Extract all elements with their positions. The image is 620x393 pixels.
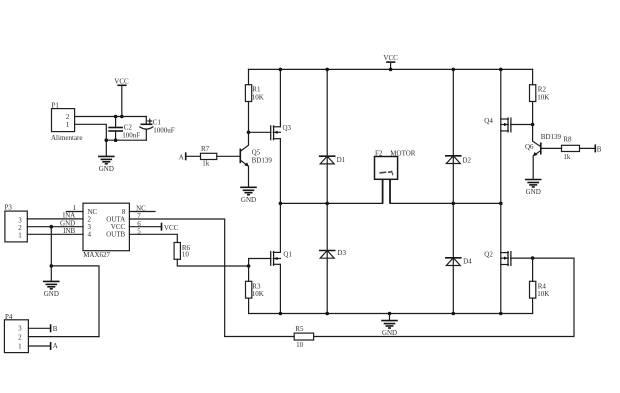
resistor R1 [245,69,263,132]
node D4 bottom [452,312,456,316]
motor F2 [375,149,416,203]
resistor R2 [530,69,550,124]
wire P1 pin2 to C1 top [75,116,147,118]
wire Q3 source to mid rail [279,139,281,204]
IC U1 MAX627 [83,203,129,259]
node Q3 drain at rail [279,68,283,72]
svg-text:A: A [179,153,184,161]
svg-text:10K: 10K [252,94,264,102]
wire P4.2 to riser [28,336,99,338]
svg-text:R1: R1 [252,86,261,94]
wire mid rail right [390,202,501,204]
svg-text:P1: P1 [52,102,60,110]
svg-text:OUTB: OUTB [106,231,125,239]
svg-text:10K: 10K [537,290,549,298]
diode D2 [445,69,471,203]
node Q4 at rail [499,68,503,72]
wire to Q3 gate [249,131,271,133]
svg-text:R4: R4 [538,282,547,290]
svg-text:VCC: VCC [164,224,179,232]
node gnd corner [105,138,109,142]
node D2 top [452,68,456,72]
port A [179,152,201,161]
svg-text:VCC: VCC [383,54,398,62]
svg-text:10K: 10K [252,290,264,298]
diode D1 [319,69,346,203]
port VCC (pin 6) [162,223,179,232]
svg-text:BD139: BD139 [252,157,273,165]
svg-text:Q6: Q6 [525,143,534,151]
svg-text:R5: R5 [295,325,304,333]
svg-text:C1: C1 [153,118,162,126]
ground (Q6 emitter) [525,180,542,197]
port A (P4) [51,342,58,350]
svg-text:Q3: Q3 [283,124,292,132]
wire Q3 drain to rail [279,69,281,126]
svg-text:D3: D3 [337,249,346,257]
transistor Q2 (NMOS mirrored) [484,250,511,266]
wire P3.2 to GND pin [27,226,83,228]
node D1 top [325,68,329,72]
wire Q4 gate to node [511,124,533,126]
wire Q1 source [279,264,281,313]
transistor Q4 (NMOS mirrored) [484,117,511,132]
node C2 bottom [114,138,118,142]
capacitor C2 [108,117,140,141]
connector P3 [5,204,28,242]
power flag VCC (top rail) [383,54,398,69]
svg-text:R3: R3 [252,282,261,290]
wire Q2 gate feed (right loop to R5) [314,258,574,336]
svg-text:MOTOR: MOTOR [390,149,415,157]
pin 1 stub (NC) [67,204,84,212]
svg-text:BD139: BD139 [541,133,562,141]
ground (P1) [98,140,115,173]
wire mid rail left [280,202,382,204]
svg-text:Q4: Q4 [484,117,493,125]
svg-text:OUTA: OUTA [106,215,125,223]
svg-text:1: 1 [18,232,22,240]
svg-text:2: 2 [88,215,92,223]
svg-text:Q1: Q1 [283,251,292,259]
svg-text:F2: F2 [375,149,383,157]
node C2 top [114,115,118,119]
svg-text:1k: 1k [563,153,571,161]
wire OUTA to R5 riser [129,219,224,337]
svg-text:GND: GND [526,188,541,196]
ground (P3 / logic) [43,266,60,298]
node D2/D4 [452,202,456,206]
transistor Q1 (NMOS) [271,251,293,266]
wire bottom rail [249,313,533,315]
wire Q2 lead (mid rail to bottom rail) [500,203,502,313]
node D1/D3 [325,202,329,206]
connector P1 [51,102,83,143]
node R2/Q4 gate/Q6 collector [531,123,535,127]
wire pin6 to VCC port [129,226,161,228]
node D3 bottom [325,312,329,316]
svg-text:Q2: Q2 [484,250,493,258]
resistor R7 [201,145,241,167]
svg-text:P4: P4 [5,313,13,321]
svg-text:10: 10 [182,250,190,258]
resistor R6 [174,243,249,267]
node Q3 source / Q1 drain [279,202,283,206]
ground (Q5 emitter) [240,187,257,204]
svg-text:2: 2 [18,333,22,341]
svg-text:3: 3 [18,324,22,332]
wire P3.1 to INB [27,233,83,235]
transistor Q3 (NMOS) [271,124,292,141]
ground (bottom rail) [381,314,398,338]
svg-text:MAX627: MAX627 [83,251,110,259]
diode D4 [445,203,472,313]
svg-text:NC: NC [136,204,146,212]
connector P4 [4,313,28,353]
wire branch to P4.2 riser [51,266,99,337]
svg-text:GND: GND [99,165,114,173]
node Q4/Q2 [499,202,503,206]
transistor Q6 BD139 [525,125,562,180]
svg-text:R7: R7 [201,145,210,153]
pin 8 stub (NC) [129,204,155,212]
wire P4.3 to port B [28,327,50,329]
svg-text:4: 4 [88,231,92,239]
svg-text:1000uF: 1000uF [153,126,175,134]
wire P3.3 to INA [27,218,83,220]
svg-text:1: 1 [18,343,22,351]
svg-text:GND: GND [241,196,256,204]
svg-text:2: 2 [66,113,70,121]
svg-text:B: B [597,145,602,153]
svg-text:7: 7 [137,212,141,220]
svg-text:D2: D2 [462,156,471,164]
diode D3 [319,203,347,313]
transistor Q5 BD139 [240,132,272,187]
port B (P4) [51,324,58,333]
node R1/Q5 collector/Q3 gate [247,131,251,135]
wire P1 pin1 to ground run [75,124,147,140]
svg-text:B: B [53,325,58,333]
wire VCC top rail [249,68,533,70]
node Q2 source at rail [499,312,503,316]
svg-text:Q5: Q5 [252,148,261,156]
svg-text:Alimentare: Alimentare [51,134,83,142]
svg-text:1: 1 [66,121,70,129]
svg-text:10K: 10K [537,94,549,102]
node P1 wire / VCC stub [120,115,124,119]
wire P4.1 to port A [28,345,50,347]
capacitor C1 [140,117,175,141]
port B [595,144,602,153]
node GND stub [388,312,392,316]
svg-text:GND: GND [44,290,59,298]
node Q1 gate / R3 / R6 wire [247,264,251,268]
svg-text:D4: D4 [463,258,472,266]
svg-text:1k: 1k [202,159,210,167]
node GND tap [50,225,54,229]
resistor R4 [530,258,550,313]
resistor R8 [541,135,596,161]
wire pin5 to R6 [129,234,177,242]
svg-text:D1: D1 [337,156,346,164]
node GND branch [50,264,54,268]
wire GND tap down [50,227,52,266]
resistor R3 [246,266,264,314]
wire Q4 lead (rail to mid rail) [500,69,502,203]
resistor R5 [225,325,314,349]
power flag VCC (left) [114,78,129,117]
svg-text:R2: R2 [538,86,547,94]
node Q1 source at rail [279,312,283,316]
wire Q2 gate to node [511,257,533,259]
node VCC rail [389,68,393,72]
svg-text:A: A [53,342,58,350]
svg-text:100nF: 100nF [122,131,140,139]
svg-text:R8: R8 [563,135,572,143]
wire Q1 gate jog [249,259,271,267]
svg-text:10: 10 [296,341,304,349]
wire Q1 drain [279,203,281,252]
node Q2 gate / R4 [531,256,535,260]
svg-text:P3: P3 [5,204,13,212]
